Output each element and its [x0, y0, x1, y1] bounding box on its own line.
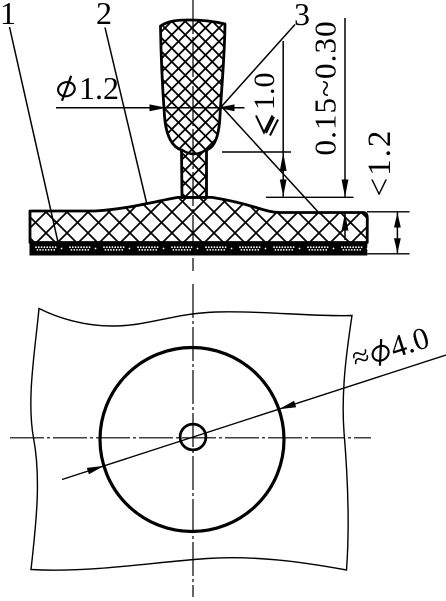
svg-text:1.2: 1.2	[79, 70, 119, 106]
svg-text:1.0: 1.0	[248, 73, 281, 111]
svg-text:1: 1	[0, 0, 16, 31]
svg-text:≈: ≈	[347, 337, 374, 375]
svg-text:<1.2: <1.2	[362, 129, 398, 197]
svg-text:4.0: 4.0	[386, 320, 433, 365]
svg-text:0.15~0.30: 0.15~0.30	[308, 20, 343, 155]
svg-text:2: 2	[96, 0, 112, 31]
